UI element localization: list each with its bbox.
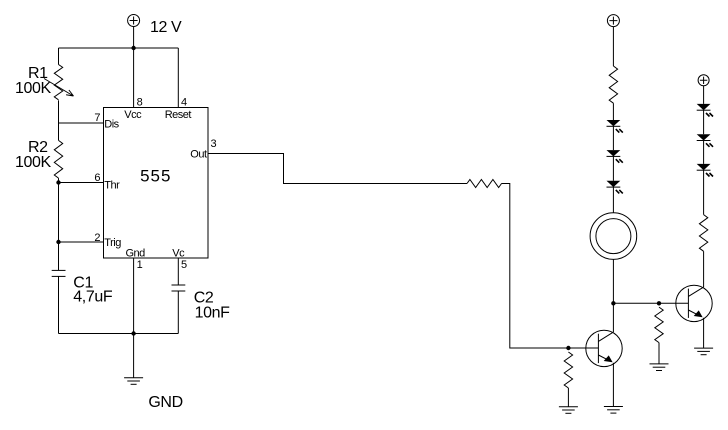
- capacitor C1 4,7uF: [52, 270, 66, 276]
- wire C2 to bottom rail: [177, 291, 179, 334]
- wire pin 5 Vc: [177, 258, 179, 285]
- wire bottom rail: [59, 333, 179, 335]
- wire terminal to LED4: [703, 86, 705, 104]
- wire resistor to base net: [502, 184, 599, 349]
- svg-text:1: 1: [137, 259, 143, 271]
- svg-text:7: 7: [94, 112, 100, 124]
- wire terminal to resistor: [612, 27, 614, 66]
- node junction base R: [566, 346, 570, 350]
- wire pin 1 Gnd: [133, 258, 135, 334]
- transistor Q2: [676, 285, 712, 321]
- ground under base resistor: [559, 407, 578, 414]
- resistor base pulldown Q1: [564, 352, 572, 388]
- ground main: [124, 378, 143, 385]
- wire to ground: [567, 388, 569, 407]
- supply terminal +12V: [128, 15, 140, 27]
- resistor R2 100K: [54, 140, 62, 178]
- svg-text:555: 555: [140, 167, 171, 186]
- svg-text:Out: Out: [190, 149, 207, 161]
- wire Q2 emitter to ground: [703, 318, 705, 348]
- supply terminal column 1: [607, 15, 619, 27]
- LED D5: [697, 134, 713, 147]
- node junction pin2: [56, 240, 60, 244]
- ground under Q1 emitter: [604, 407, 623, 414]
- wire LED5-LED6: [703, 141, 705, 164]
- resistor R1 100K potentiometer: [44, 65, 74, 100]
- ground under Q2 emitter: [694, 348, 713, 355]
- resistor Q2 base pulldown: [655, 307, 663, 342]
- svg-text:5: 5: [181, 259, 187, 271]
- op-amp U1 555 IC box: [104, 108, 209, 259]
- LED D2: [607, 150, 623, 163]
- svg-text:4,7uF: 4,7uF: [73, 289, 113, 306]
- node junction pin6: [56, 180, 60, 184]
- svg-text:Vc: Vc: [172, 248, 185, 260]
- wire resistor to Q2 collector: [703, 251, 705, 287]
- svg-text:10nF: 10nF: [195, 304, 230, 321]
- wire LED1-LED2: [612, 126, 614, 150]
- ground under Q2 base resistor: [650, 364, 669, 371]
- supply terminal column 2: [698, 75, 709, 86]
- wire pin 6 Thr: [59, 182, 104, 184]
- node junction gnd rail: [131, 331, 135, 335]
- svg-text:8: 8: [137, 97, 143, 109]
- node junction 12V rail: [131, 46, 135, 50]
- node junction Q2 base R: [657, 301, 661, 305]
- resistor lamp column: [609, 66, 617, 103]
- wire resistor to LED1: [612, 103, 614, 120]
- wire rail to ground: [133, 334, 135, 378]
- LED D6: [697, 164, 713, 177]
- wire top rail: [59, 47, 179, 49]
- svg-text:GND: GND: [148, 394, 182, 411]
- svg-text:100K: 100K: [15, 154, 51, 171]
- wire pin 7 Dis: [59, 122, 104, 124]
- svg-text:Vcc: Vcc: [124, 109, 142, 121]
- wire collector node to Q2 base: [613, 302, 688, 304]
- wire LED6 to resistor: [703, 170, 705, 214]
- wire pin 2 Trig: [59, 241, 104, 243]
- resistor Q2 collector: [699, 215, 707, 252]
- wire R2 bottom to C1: [58, 178, 60, 270]
- lamp L1: [590, 213, 637, 260]
- wire C1 to bottom rail: [58, 276, 60, 333]
- LED D1: [607, 120, 623, 133]
- svg-text:Gnd: Gnd: [126, 248, 146, 260]
- resistor series output: [467, 180, 502, 188]
- wire to ground: [658, 343, 660, 364]
- wire pin 3 Out: [208, 154, 467, 184]
- svg-text:12 V: 12 V: [150, 19, 182, 36]
- svg-text:3: 3: [211, 138, 217, 150]
- wire pin 8 Vcc: [133, 48, 135, 108]
- wire Q1 collector: [612, 303, 614, 332]
- LED D4: [697, 104, 713, 117]
- wire LED3 to lamp: [612, 187, 614, 213]
- wire lamp to collector node: [612, 259, 614, 303]
- svg-text:4: 4: [181, 97, 187, 109]
- svg-text:Reset: Reset: [165, 109, 192, 121]
- wire LED4-LED5: [703, 110, 705, 134]
- capacitor C2 10nF: [172, 285, 186, 291]
- wire left rail upper: [58, 48, 60, 65]
- svg-text:6: 6: [94, 172, 100, 184]
- svg-text:100K: 100K: [15, 80, 51, 97]
- wire Q1 emitter to ground: [612, 363, 614, 407]
- wire LED2-LED3: [612, 156, 614, 180]
- svg-text:Trig: Trig: [104, 237, 121, 249]
- svg-text:2: 2: [94, 232, 100, 244]
- wire supply to top rail: [133, 27, 135, 49]
- svg-text:Thr: Thr: [104, 179, 120, 191]
- wire R1 bottom to pin7 tee: [58, 100, 60, 140]
- svg-text:Dis: Dis: [104, 118, 119, 130]
- LED D3: [607, 181, 623, 194]
- wire pin 4 Reset: [177, 48, 179, 108]
- transistor Q1: [586, 330, 622, 366]
- node collector junction: [611, 301, 615, 305]
